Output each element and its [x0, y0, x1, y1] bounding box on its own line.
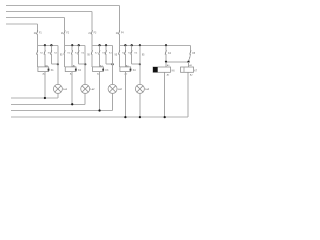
bus rail L1	[6, 5, 119, 7]
junction b2	[71, 44, 73, 46]
wire to coil	[91, 54, 93, 67]
wire branch 3	[78, 45, 80, 50]
contact K2.3	[78, 50, 79, 54]
wire branch 2	[124, 45, 126, 50]
wire contact to node	[36, 34, 38, 46]
wire branch 3	[131, 45, 133, 50]
wire coil to rail	[44, 72, 46, 99]
wire lamp to rail	[84, 93, 86, 104]
contact K4.2	[124, 50, 125, 54]
svg-text:La4: La4	[145, 88, 150, 91]
junction b3	[131, 44, 133, 46]
junction b2	[98, 44, 100, 46]
junction tie A	[165, 61, 167, 63]
wire to coil	[124, 54, 126, 67]
tee wire to feeder	[79, 63, 86, 65]
svg-text:K7: K7	[194, 69, 198, 72]
svg-text:A2: A2	[190, 73, 193, 76]
svg-text:K4: K4	[133, 69, 137, 72]
contact K3.3	[105, 50, 106, 54]
svg-text:K3: K3	[105, 69, 109, 72]
wire B into box K7	[188, 62, 190, 67]
svg-text:K2: K2	[78, 69, 82, 72]
bottom rail N2	[11, 103, 85, 105]
svg-text:95: 95	[142, 54, 145, 56]
junction b2	[44, 44, 46, 46]
wire lamp to rail	[57, 93, 59, 98]
wire coil to rail	[71, 72, 73, 105]
wire drop from bus to contact F4	[118, 6, 120, 31]
svg-text:A1: A1	[167, 64, 170, 67]
wire to coil	[36, 54, 38, 67]
bus rail L3	[6, 17, 65, 19]
feeder wire to lamp La4	[139, 45, 141, 84]
svg-text:K5: K5	[192, 52, 196, 55]
svg-text:La1: La1	[63, 88, 68, 91]
junction tie B	[187, 61, 189, 63]
contact K4.1	[118, 50, 119, 54]
wire to coil	[118, 54, 120, 67]
wire coil to rail	[99, 72, 101, 111]
junction K6 rail	[164, 116, 166, 118]
wire A to tie bar	[165, 54, 167, 62]
wire branch 2	[71, 45, 73, 50]
feeder wire to lamp La3	[112, 45, 114, 84]
svg-text:K4: K4	[168, 52, 172, 55]
contact K4.3	[131, 50, 132, 54]
junction right branch A	[165, 44, 167, 46]
contact F1	[37, 30, 38, 34]
junction tee	[111, 63, 113, 65]
svg-text:K6: K6	[172, 69, 176, 72]
feeder wire to lamp La1	[57, 45, 59, 84]
wire branch 1	[64, 45, 66, 50]
junction b3	[78, 44, 80, 46]
node line rung 3	[92, 44, 113, 46]
junction tee	[139, 63, 141, 65]
tee wire to feeder	[132, 63, 140, 65]
contact K5 aux	[165, 50, 166, 54]
junction coil on rail	[98, 109, 100, 111]
junction lamp on rail	[139, 116, 141, 118]
svg-text:La3: La3	[118, 88, 123, 91]
wire coil to rail	[124, 72, 126, 118]
contact F4	[118, 30, 119, 34]
svg-text:K4: K4	[54, 52, 57, 54]
contact K2.1	[64, 50, 65, 54]
svg-text:F1: F1	[39, 33, 42, 35]
contact K3.1	[91, 50, 92, 54]
contact K1.3	[51, 50, 52, 54]
svg-text:La2: La2	[90, 88, 95, 91]
wire branch3 down	[131, 54, 133, 64]
svg-text:F2: F2	[66, 33, 69, 35]
wire box K7 to rail	[187, 72, 189, 117]
node line rung 2	[65, 44, 86, 46]
wire A into box K6	[165, 62, 167, 67]
wire branch 1	[36, 45, 38, 50]
contact K1.1	[37, 50, 38, 54]
bus rail L2	[6, 11, 92, 13]
svg-text:F3: F3	[94, 33, 97, 35]
lamp La2	[81, 84, 90, 93]
wire to coil	[71, 54, 73, 67]
coil K2	[65, 67, 76, 72]
node line rung 1	[37, 44, 58, 46]
contact K6 aux	[190, 50, 191, 54]
svg-text:A2: A2	[97, 72, 100, 75]
lamp La3	[108, 84, 117, 93]
tee wire to feeder	[106, 63, 113, 65]
svg-text:95: 95	[115, 54, 118, 56]
coil K1	[38, 67, 49, 72]
wire branch3 down	[50, 54, 52, 64]
wire branch 2	[44, 45, 46, 50]
wire lamp to rail	[112, 93, 114, 110]
contact F3	[91, 30, 92, 34]
junction tee	[84, 63, 86, 65]
svg-text:K2: K2	[95, 52, 98, 54]
svg-text:95: 95	[87, 54, 90, 56]
wire branch 1	[91, 45, 93, 50]
feeder wire to lamp La2	[84, 45, 86, 84]
wire contact to node	[118, 34, 120, 46]
junction b2	[124, 44, 126, 46]
svg-text:K4: K4	[134, 52, 137, 54]
wire drop from bus to contact F2	[64, 18, 66, 31]
wire drop A	[165, 45, 167, 50]
wire box K6 to rail	[164, 72, 166, 117]
svg-text:K2: K2	[68, 52, 71, 54]
wire branch 3	[105, 45, 107, 50]
node line rung 4	[119, 44, 190, 46]
wire branch 2	[99, 45, 101, 50]
tee wire to feeder	[51, 63, 58, 65]
wire to coil	[44, 54, 46, 67]
svg-text:A1: A1	[189, 64, 192, 67]
relay box K7	[181, 67, 194, 72]
timer box K6 filled section	[153, 67, 171, 72]
junction feeder	[139, 44, 141, 46]
wire drop from bus to contact F1	[36, 24, 38, 31]
bottom rail N3	[11, 110, 113, 112]
coil K4	[120, 67, 131, 72]
junction tee	[57, 63, 59, 65]
wire branch 3	[50, 45, 52, 50]
wire B to tie bar	[189, 54, 191, 62]
junction coil on rail	[44, 97, 46, 99]
wire branch3 down	[78, 54, 80, 64]
junction coil on rail	[124, 116, 126, 118]
svg-text:F4: F4	[121, 33, 124, 35]
junction b3	[105, 44, 107, 46]
contact F2	[64, 30, 65, 34]
bus rail L4	[6, 23, 37, 25]
svg-text:95: 95	[60, 54, 63, 56]
lamp La1	[53, 84, 62, 93]
wire to coil	[99, 54, 101, 67]
svg-text:K4: K4	[109, 52, 112, 54]
wire contact to node	[64, 34, 66, 46]
wire drop B	[190, 45, 192, 50]
contact K2.2	[71, 50, 72, 54]
svg-text:A2: A2	[43, 72, 46, 75]
bottom rail N4	[11, 116, 188, 118]
junction coil on rail	[71, 103, 73, 105]
wire branch 1	[118, 45, 120, 50]
svg-text:K4: K4	[82, 52, 85, 54]
svg-text:A2: A2	[167, 73, 170, 76]
contact K1.2	[44, 50, 45, 54]
wire drop from bus to contact F3	[91, 12, 93, 31]
wire to coil	[64, 54, 66, 67]
wire branch3 down	[105, 54, 107, 64]
wire contact to node	[91, 34, 93, 46]
svg-text:K2: K2	[40, 52, 43, 54]
lamp La4	[135, 84, 144, 93]
junction b3	[50, 44, 52, 46]
wire lamp to rail	[139, 93, 141, 117]
svg-text:K1: K1	[51, 69, 55, 72]
contact K3.2	[99, 50, 100, 54]
tie bar wire	[166, 61, 189, 63]
svg-text:A2: A2	[70, 72, 73, 75]
bottom rail N1	[11, 97, 58, 99]
coil K3	[93, 67, 104, 72]
